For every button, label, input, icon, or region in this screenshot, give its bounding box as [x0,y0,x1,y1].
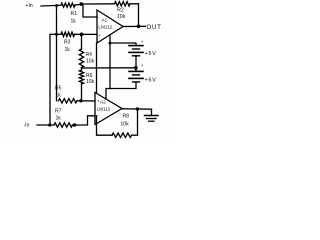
svg-text:10k: 10k [86,59,95,65]
svg-text:+: + [141,39,144,44]
svg-text:1k: 1k [65,47,71,53]
svg-text:LM112: LM112 [98,25,112,30]
svg-text:+In: +In [26,3,33,9]
svg-text:LM112: LM112 [97,107,111,112]
svg-text:10k: 10k [117,14,126,20]
svg-text:R8: R8 [123,114,130,120]
svg-text:1k: 1k [56,116,62,122]
svg-text:R7: R7 [55,109,62,115]
svg-text:R4: R4 [86,52,93,58]
svg-text:+: + [97,99,100,104]
svg-text:+: + [141,63,144,68]
svg-text:R2: R2 [117,7,124,13]
svg-text:A1: A1 [102,17,108,22]
svg-text:R5: R5 [55,86,62,92]
svg-text:A2: A2 [100,99,106,104]
svg-text:+6V: +6V [145,77,157,83]
svg-text:R3: R3 [64,40,71,46]
svg-text:10k: 10k [121,122,130,128]
svg-text:-In: -In [24,122,30,128]
svg-text:1k: 1k [56,92,62,98]
svg-text:10k: 10k [86,79,95,85]
svg-text:1k: 1k [71,19,77,25]
svg-text:+: + [98,33,101,38]
svg-text:R1: R1 [71,11,78,17]
svg-text:OUT: OUT [147,24,162,31]
svg-text:+6V: +6V [145,51,157,57]
